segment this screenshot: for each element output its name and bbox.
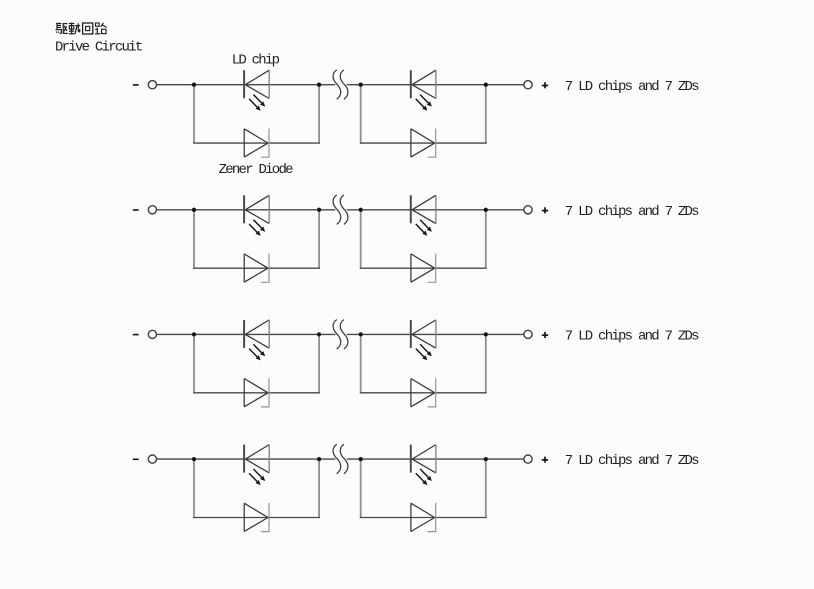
wire: vertical drop at node D1 [485,85,487,143]
svg-text:7 LD chips and 7 ZDs: 7 LD chips and 7 ZDs [565,453,699,469]
laser diode LD4 (LD chip): cathode bar [410,195,412,223]
title kanji 駆 [56,23,68,33]
label "7 LD chips and 7 ZDs" row 3 [565,329,699,345]
laser diode LD6: triangle anode [412,320,436,348]
zener diode ZD2: triangle anode [411,129,435,157]
laser diode LD2: emission arrows [416,95,432,111]
wire row 3: break to positive terminal [347,333,524,335]
zener diode ZD5: bent cathode bar [261,378,269,407]
laser diode LD1: triangle anode [245,70,269,98]
wire: vertical drop at node C4 [360,459,362,517]
laser diode LD3 (LD chip): cathode bar [243,195,245,223]
laser diode LD2: triangle anode [412,70,436,98]
label "Zener Diode" [219,162,294,178]
wire: vertical drop at node C1 [360,85,362,143]
zener diode ZD8: triangle anode [411,503,435,531]
break symbol (omitted series chips) row 1 [333,70,348,99]
laser diode LD5: emission arrows [249,344,265,360]
wire: zener branch A4-B4 [193,517,320,519]
wire: zener branch C2-D2 [360,267,487,269]
svg-text:Zener Diode: Zener Diode [219,162,294,178]
junction node C1 [359,83,363,87]
wire: vertical drop at node D2 [485,210,487,268]
junction node B1 [317,83,321,87]
wire: zener branch C1-D1 [360,142,487,144]
wire: vertical drop at node D4 [485,459,487,517]
wire: vertical drop at node C3 [360,334,362,392]
label "+" polarity row 2 [542,207,548,213]
laser diode LD7 (LD chip): cathode bar [243,445,245,473]
junction node A3 [192,332,196,336]
wire: vertical drop at node A1 [193,85,195,143]
laser diode LD3: triangle anode [245,195,269,223]
label "LD chip" [232,52,280,68]
junction node A1 [192,83,196,87]
zener diode ZD1: triangle anode [244,129,268,157]
label "-" polarity row 3 [133,334,139,336]
break symbol (omitted series chips) row 2 [333,195,348,224]
terminal positive row 1 [524,81,532,89]
zener diode ZD4: bent cathode bar [428,254,436,283]
wire row 1: break to positive terminal [347,84,524,86]
zener diode ZD4: triangle anode [411,254,435,282]
break symbol (omitted series chips) row 4 [333,444,348,473]
junction node D1 [484,83,488,87]
junction node D2 [484,208,488,212]
wire: zener branch A3-B3 [193,392,320,394]
junction node D3 [484,332,488,336]
svg-text:7 LD chips and 7 ZDs: 7 LD chips and 7 ZDs [565,329,699,345]
junction node A2 [192,208,196,212]
junction node C2 [359,208,363,212]
zener diode ZD3: bent cathode bar [261,254,269,283]
wire: vertical drop at node B3 [318,334,320,392]
label "7 LD chips and 7 ZDs" row 1 [565,79,699,95]
zener diode ZD3: triangle anode [244,254,268,282]
terminal negative row 4 [148,455,156,463]
zener diode ZD1: bent cathode bar [261,129,269,158]
wire row 2: break to positive terminal [347,209,524,211]
laser diode LD3: emission arrows [249,220,265,236]
junction node B4 [317,457,321,461]
label "+" polarity row 1 [542,82,548,88]
wire row 1: negative terminal to break [157,84,336,86]
svg-text:Drive Circuit: Drive Circuit [55,39,142,55]
terminal negative row 3 [148,330,156,338]
label "+" polarity row 4 [542,457,548,463]
laser diode LD8 (LD chip): cathode bar [410,445,412,473]
svg-text:7 LD chips and 7 ZDs: 7 LD chips and 7 ZDs [565,79,699,95]
junction node C3 [359,332,363,336]
title label "Drive Circuit" [55,39,142,55]
title kanji 路 [95,23,107,34]
wire: vertical drop at node A3 [193,334,195,392]
label "7 LD chips and 7 ZDs" row 2 [565,204,699,220]
title kanji 動 [69,23,81,34]
junction node B2 [317,208,321,212]
laser diode LD2 (LD chip): cathode bar [410,70,412,98]
zener diode ZD6: bent cathode bar [428,378,436,407]
svg-text:LD chip: LD chip [232,52,280,68]
title kanji 回 [83,23,93,34]
label "-" polarity row 4 [133,458,139,460]
wire row 3: negative terminal to break [157,333,336,335]
wire: vertical drop at node C2 [360,210,362,268]
wire: vertical drop at node A2 [193,210,195,268]
wire: vertical drop at node B1 [318,85,320,143]
terminal negative row 2 [148,206,156,214]
label "-" polarity row 2 [133,209,139,211]
terminal positive row 4 [524,455,532,463]
zener diode ZD7: bent cathode bar [261,503,269,532]
zener diode ZD8: bent cathode bar [428,503,436,532]
laser diode LD8: triangle anode [412,445,436,473]
junction node A4 [192,457,196,461]
wire row 4: negative terminal to break [157,458,336,460]
laser diode LD6 (LD chip): cathode bar [410,320,412,348]
wire: zener branch A1-B1 [193,142,320,144]
wire: zener branch A2-B2 [193,267,320,269]
zener diode ZD6: triangle anode [411,379,435,407]
laser diode LD6: emission arrows [416,344,432,360]
junction node C4 [359,457,363,461]
laser diode LD4: triangle anode [412,195,436,223]
terminal positive row 3 [524,330,532,338]
laser diode LD7: triangle anode [245,445,269,473]
zener diode ZD2: bent cathode bar [428,129,436,158]
terminal negative row 1 [148,81,156,89]
junction node D4 [484,457,488,461]
svg-text:7 LD chips and 7 ZDs: 7 LD chips and 7 ZDs [565,204,699,220]
break symbol (omitted series chips) row 3 [333,320,348,349]
laser diode LD7: emission arrows [249,469,265,485]
laser diode LD8: emission arrows [416,469,432,485]
wire: zener branch C3-D3 [360,392,487,394]
wire row 2: negative terminal to break [157,209,336,211]
label "-" polarity row 1 [133,84,139,86]
wire: zener branch C4-D4 [360,517,487,519]
wire row 4: break to positive terminal [347,458,524,460]
junction node B3 [317,332,321,336]
laser diode LD5 (LD chip): cathode bar [243,320,245,348]
wire: vertical drop at node D3 [485,334,487,392]
label "+" polarity row 3 [542,332,548,338]
laser diode LD1 (LD chip): cathode bar [243,70,245,98]
zener diode ZD5: triangle anode [244,379,268,407]
laser diode LD5: triangle anode [245,320,269,348]
wire: vertical drop at node B4 [318,459,320,517]
laser diode LD1: emission arrows [249,95,265,111]
label "7 LD chips and 7 ZDs" row 4 [565,453,699,469]
laser diode LD4: emission arrows [416,220,432,236]
terminal positive row 2 [524,206,532,214]
wire: vertical drop at node B2 [318,210,320,268]
wire: vertical drop at node A4 [193,459,195,517]
zener diode ZD7: triangle anode [244,503,268,531]
